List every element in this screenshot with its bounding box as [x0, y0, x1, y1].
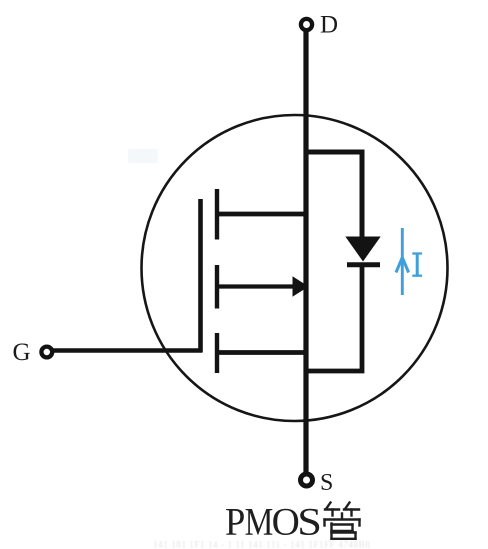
current arrow I (blue, points up) — [401, 228, 404, 295]
wire: source connection (bottom channel to main vertical) — [217, 350, 306, 355]
terminal G — [41, 347, 52, 358]
wire: drain connection (top channel to main vertical) — [217, 212, 306, 217]
watermark (faint) — [153, 540, 370, 549]
svg-text:O: O — [272, 501, 300, 544]
wire: body-diode branch bottom — [306, 264, 362, 371]
svg-text:141 181 1F1 14 - 1 11 141 111: 141 181 1F1 14 - 1 11 141 111 - 141 1F1F… — [153, 540, 370, 549]
svg-text:G: G — [13, 339, 31, 366]
wire: gate lead from G terminal — [52, 348, 202, 353]
svg-text:D: D — [320, 12, 338, 39]
channel segment top — [215, 189, 219, 240]
arrow head (substrate, points right) — [293, 276, 309, 296]
svg-text:S: S — [320, 470, 333, 496]
svg-text:P: P — [225, 501, 245, 544]
gate electrode bar — [198, 199, 203, 353]
wire: body-diode branch top — [306, 152, 362, 237]
diode D1 cathode bar — [347, 262, 380, 267]
transistor envelope circle — [142, 115, 448, 421]
caption PMOS — [225, 501, 322, 544]
caption glyph 管 (drawn) — [325, 503, 360, 539]
svg-text:M: M — [245, 501, 274, 544]
diode D1 anode triangle — [345, 237, 380, 262]
wire: main drain-source vertical — [303, 30, 308, 473]
label I (blue, drawn I-beam) — [412, 254, 422, 276]
watermark smudge (faint, upper left) — [128, 149, 158, 163]
channel segment middle — [215, 265, 219, 309]
terminal D — [301, 19, 312, 30]
svg-text:S: S — [297, 501, 322, 544]
channel segment bottom — [215, 333, 219, 373]
wire: substrate connection with arrow — [219, 284, 294, 288]
terminal S — [301, 474, 313, 486]
